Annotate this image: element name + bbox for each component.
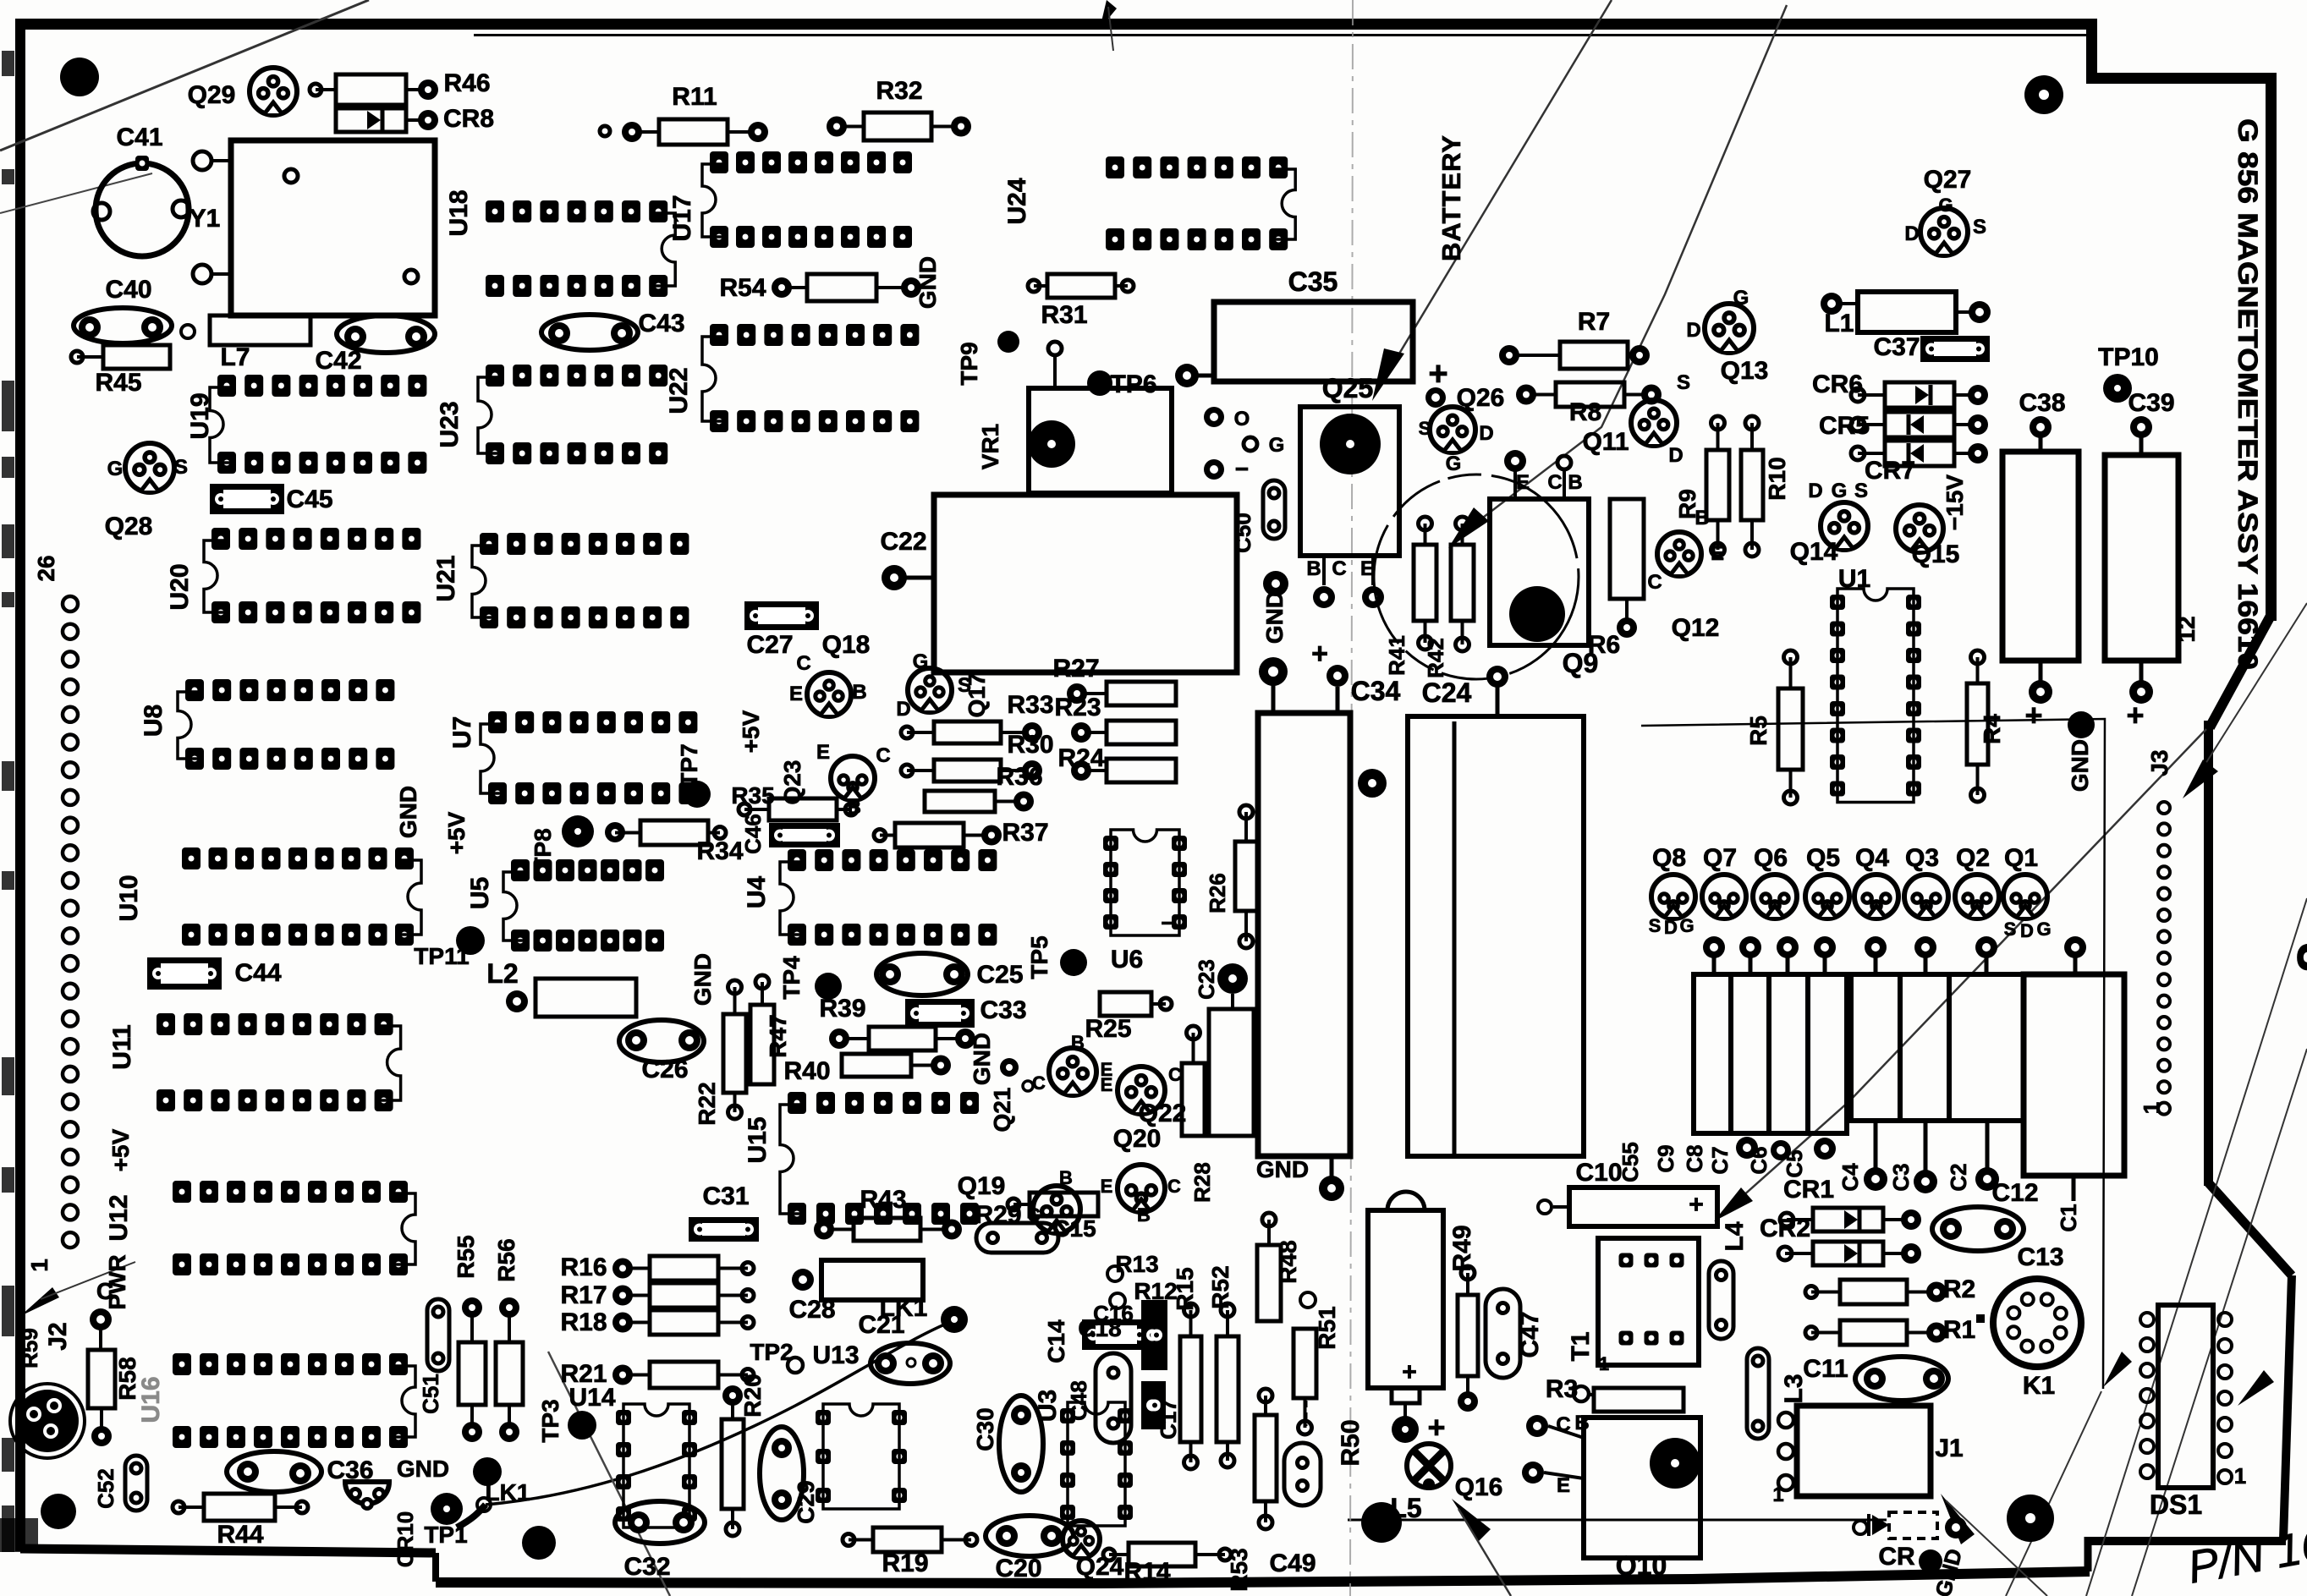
svg-text:CR8: CR8 (443, 105, 494, 133)
svg-text:J2: J2 (44, 1322, 72, 1350)
svg-text:CR10: CR10 (393, 1511, 418, 1567)
svg-text:R20: R20 (739, 1374, 766, 1417)
svg-text:U12: U12 (105, 1194, 133, 1241)
svg-text:U8: U8 (140, 705, 168, 737)
svg-text:C38: C38 (2019, 389, 2065, 417)
section boundary line (1641, 719, 2105, 1389)
pads O G minus (1204, 407, 1224, 427)
svg-text:U5: U5 (466, 877, 494, 909)
capacitor C39 (2105, 455, 2178, 661)
svg-text:K1: K1 (2023, 1372, 2055, 1400)
svg-text:LK1: LK1 (486, 1479, 530, 1506)
svg-text:TP10: TP10 (2098, 343, 2159, 371)
svg-text:G: G (1679, 915, 1694, 936)
capacitor C17 (1141, 1381, 1166, 1429)
bank bottom pads (1736, 1137, 1758, 1159)
resistor R26 (1235, 842, 1257, 911)
svg-text:D: D (2020, 920, 2034, 941)
resistor R58 (88, 1350, 115, 1408)
svg-text:R17: R17 (560, 1281, 607, 1309)
svg-text:U6: U6 (1111, 946, 1143, 974)
svg-text:3: 3 (2286, 943, 2307, 972)
svg-text:U16: U16 (137, 1376, 165, 1423)
svg-text:S: S (1973, 216, 1986, 239)
svg-text:Q8: Q8 (1652, 844, 1686, 872)
IC U23 (486, 365, 504, 387)
ground stub under C34 (1319, 1176, 1344, 1201)
svg-text:E: E (789, 683, 803, 705)
svg-text:L3: L3 (1780, 1374, 1808, 1403)
svg-text:C25: C25 (976, 961, 1023, 989)
resistor R48 (1257, 1245, 1281, 1321)
capacitor C35 (1214, 302, 1413, 381)
gate pads row (1703, 936, 1725, 958)
resistor R56 (496, 1342, 523, 1405)
paper crease line (1350, 0, 1353, 1596)
board edge inner line bottom-right (1348, 1519, 1887, 1522)
capacitor C30 (999, 1396, 1043, 1492)
resistor R5 (1778, 688, 1803, 770)
svg-text:R27: R27 (1052, 655, 1099, 683)
ground pad GND right (2068, 711, 2095, 738)
resistor R34 (640, 820, 708, 845)
svg-text:Q2: Q2 (1956, 844, 1990, 872)
svg-text:+5V: +5V (738, 710, 764, 753)
transistor Q19 (1033, 1186, 1080, 1233)
power transistor bottom-left (16, 1390, 79, 1452)
svg-text:G: G (1733, 287, 1749, 310)
resistor R39 (869, 1027, 936, 1050)
capacitor C40 (74, 308, 172, 343)
svg-text:S: S (1677, 371, 1690, 394)
test point TP9 (997, 331, 1019, 353)
svg-text:R58: R58 (114, 1357, 140, 1400)
svg-text:R19: R19 (882, 1549, 928, 1577)
svg-text:C17: C17 (1156, 1399, 1181, 1440)
svg-text:E: E (1101, 1176, 1113, 1197)
svg-text:G: G (1446, 452, 1462, 475)
svg-text:C33: C33 (980, 996, 1026, 1024)
svg-text:C7: C7 (1707, 1146, 1733, 1174)
capacitor C45 (210, 484, 284, 514)
diode CR7 (1885, 441, 1954, 466)
capacitor C22 (934, 495, 1237, 672)
transistor Q23 (831, 756, 875, 800)
capacitor C23 (1209, 1009, 1254, 1136)
IC U24 (1106, 156, 1124, 178)
svg-text:C46: C46 (740, 814, 766, 854)
svg-text:+: + (1402, 1358, 1417, 1386)
svg-text:L7: L7 (220, 343, 250, 371)
svg-text:U23: U23 (436, 401, 464, 447)
svg-text:12: 12 (2173, 616, 2200, 642)
capacitor C16 (1141, 1300, 1167, 1370)
svg-text:D: D (896, 698, 910, 721)
svg-text:U3: U3 (1034, 1390, 1062, 1422)
capacitor C26 (619, 1020, 704, 1062)
resistor R19 (873, 1527, 942, 1552)
IC U1 (1830, 595, 1845, 610)
test point TP5 (1060, 949, 1087, 976)
resistor R51 (1294, 1329, 1316, 1398)
resistor R32 (864, 112, 931, 140)
diode CR6 (1885, 382, 1954, 408)
svg-text:R36: R36 (996, 763, 1042, 791)
svg-text:U20: U20 (166, 563, 194, 610)
resistor R2 (1840, 1280, 1907, 1304)
resistor R1 (1840, 1320, 1907, 1345)
mounting hole bottom-right (2007, 1495, 2054, 1542)
svg-text:VR1: VR1 (977, 424, 1003, 469)
regulator VR1 (1029, 388, 1172, 493)
transformer T1 (1598, 1238, 1699, 1365)
svg-text:E: E (1101, 1074, 1113, 1095)
IC U16 (173, 1353, 191, 1375)
svg-text:TP6: TP6 (1110, 370, 1156, 398)
capacitor C24 (1408, 716, 1584, 1156)
capacitor C52 (125, 1456, 147, 1511)
transistor Q25 (1300, 407, 1399, 556)
transistor Q14 (1821, 502, 1868, 550)
resistor R22 (723, 1014, 746, 1093)
transistor Q24 (1063, 1521, 1100, 1558)
svg-text:G: G (1832, 480, 1848, 502)
svg-text:R4: R4 (1979, 714, 2005, 744)
transistor Q17 (908, 668, 952, 712)
IC U6 (1103, 836, 1118, 851)
capacitor C47 (1486, 1289, 1520, 1378)
capacitor C18 (1082, 1319, 1151, 1350)
svg-text:C41: C41 (116, 123, 162, 151)
svg-text:R5: R5 (1745, 716, 1771, 746)
svg-text:J3: J3 (2146, 749, 2172, 776)
dashed circle C24 outline (1374, 474, 1579, 679)
svg-text:C: C (1167, 1176, 1181, 1197)
svg-text:TP11: TP11 (414, 943, 469, 969)
resistor R33 (934, 721, 1001, 743)
test point TP11 (456, 926, 485, 955)
svg-text:U15: U15 (744, 1116, 772, 1163)
capacitor C20 (986, 1516, 1074, 1556)
svg-text:C32: C32 (623, 1553, 670, 1581)
resistor R31 (1047, 274, 1115, 298)
svg-text:C2: C2 (1946, 1163, 1971, 1191)
IC U18 (486, 200, 504, 222)
svg-text:R53: R53 (1226, 1548, 1252, 1591)
capacitor C9 (1731, 974, 1769, 1133)
svg-text:1: 1 (1772, 1484, 1783, 1506)
svg-text:C9: C9 (1653, 1144, 1678, 1172)
capacitor C36 (227, 1451, 321, 1492)
svg-text:CR6: CR6 (1812, 370, 1863, 398)
resistor R25 (1100, 992, 1151, 1016)
svg-text:B: B (1071, 1032, 1085, 1053)
svg-text:C12: C12 (1991, 1179, 2038, 1207)
svg-text:L4: L4 (1721, 1221, 1749, 1251)
svg-text:C10: C10 (1575, 1159, 1622, 1187)
svg-text:Q28: Q28 (105, 513, 153, 540)
svg-text:R22: R22 (694, 1082, 720, 1125)
svg-text:B: B (852, 681, 866, 704)
transistor Q5 (1805, 875, 1849, 919)
resistor R6 (1610, 499, 1644, 599)
pointer arrow at J1 (1941, 1494, 1975, 1544)
link wire LK1 (486, 1321, 953, 1505)
test point TP10 (2103, 374, 2132, 403)
svg-text:R52: R52 (1207, 1265, 1233, 1308)
scratch line bottom-right long (2132, 1049, 2307, 1596)
svg-text:R45: R45 (95, 369, 141, 397)
svg-text:C24: C24 (1422, 677, 1472, 708)
svg-text:TP7: TP7 (676, 743, 702, 787)
svg-text:R10: R10 (1764, 457, 1790, 500)
svg-text:D: D (1479, 422, 1493, 445)
svg-text:Q13: Q13 (1721, 357, 1769, 385)
inductor L1 (1858, 292, 1956, 332)
capacitor C29 (760, 1427, 804, 1520)
capacitor C6 (1851, 974, 1900, 1121)
connector J1 (1797, 1406, 1931, 1496)
resistor R40 (842, 1054, 911, 1077)
capacitor C12 (1932, 1207, 2024, 1251)
svg-text:R55: R55 (453, 1235, 479, 1278)
transistor Q18 (807, 672, 851, 716)
svg-text:U22: U22 (665, 367, 693, 414)
svg-text:Q10: Q10 (1616, 1550, 1667, 1581)
svg-text:C51: C51 (418, 1374, 443, 1414)
IC U22 (710, 324, 728, 346)
svg-text:C22: C22 (880, 528, 926, 556)
capacitor C4 (1949, 974, 2024, 1121)
svg-text:GND: GND (1261, 591, 1288, 644)
IC U7 (488, 711, 507, 733)
svg-text:GND: GND (915, 256, 941, 309)
capacitor C43 (541, 315, 638, 350)
transistor Q13 (1705, 304, 1754, 353)
transistor Q3 (1904, 875, 1948, 919)
resistor R21 (650, 1362, 718, 1388)
resistor R23 (1107, 721, 1176, 744)
svg-text:C13: C13 (2017, 1243, 2063, 1271)
svg-text:R39: R39 (819, 995, 865, 1023)
diode CR5 (1885, 412, 1954, 437)
IC U4 (788, 849, 806, 871)
svg-text:Q14: Q14 (1790, 538, 1838, 566)
IC U21 (480, 533, 498, 555)
capacitor C25 (876, 953, 968, 995)
svg-text:GND: GND (395, 786, 421, 838)
board outline left border (15, 19, 25, 1551)
svg-text:C44: C44 (234, 959, 281, 987)
svg-text:Q1: Q1 (2004, 844, 2038, 872)
test point TP1 (431, 1493, 463, 1525)
diode CR8 (336, 108, 406, 132)
transistor Q10 (1584, 1418, 1700, 1558)
svg-text:R6: R6 (1588, 631, 1620, 659)
capacitor C5 (1900, 974, 1949, 1121)
svg-text:S: S (1419, 418, 1431, 439)
svg-text:1: 1 (2139, 1102, 2164, 1114)
svg-text:U13: U13 (812, 1341, 859, 1369)
capacitor C42 (337, 315, 435, 353)
svg-text:Q24: Q24 (1076, 1553, 1124, 1581)
svg-text:L2: L2 (486, 958, 518, 989)
transistor Q6 (1753, 875, 1797, 919)
svg-text:C48: C48 (1066, 1380, 1091, 1421)
svg-text:R7: R7 (1578, 308, 1610, 336)
svg-text:C49: C49 (1269, 1549, 1316, 1577)
svg-text:Q6: Q6 (1754, 844, 1788, 872)
capacitor C44 (147, 957, 222, 990)
pointer arrow at J2 (20, 1287, 59, 1316)
resistor R53 (1255, 1415, 1277, 1501)
svg-text:R16: R16 (560, 1253, 607, 1281)
pointer line to C10 (1726, 729, 2206, 1211)
resistor R54 (807, 274, 876, 301)
battery pointer line (1379, 0, 1612, 387)
svg-text:R37: R37 (1002, 819, 1048, 847)
mounting hole top-left (60, 58, 99, 96)
resistor R29 (1030, 1193, 1098, 1216)
resistor R45 (103, 345, 170, 369)
pointer line to Q9 (1458, 5, 1787, 536)
resistor R49 (1458, 1295, 1478, 1376)
scratch line bottom-right second (2086, 898, 2307, 1596)
svg-text:Q16: Q16 (1455, 1473, 1503, 1501)
svg-text:C: C (1332, 557, 1346, 580)
svg-text:R24: R24 (1057, 744, 1104, 772)
svg-text:+: + (1689, 1191, 1704, 1219)
inductor L2 (536, 979, 636, 1017)
svg-text:U4: U4 (743, 876, 771, 909)
svg-text:CR: CR (1878, 1543, 1915, 1571)
svg-text:C15: C15 (1052, 1215, 1096, 1242)
svg-text:R56: R56 (493, 1238, 519, 1281)
svg-text:U21: U21 (432, 555, 460, 601)
svg-text:CR7: CR7 (1865, 457, 1915, 485)
svg-text:R51: R51 (1314, 1306, 1340, 1349)
svg-text:Q29: Q29 (188, 81, 236, 109)
transistor Q12 (1657, 532, 1701, 576)
transistor Q27 (1920, 208, 1968, 255)
transistor Q11 (1631, 400, 1677, 446)
capacitor C31 (689, 1217, 759, 1242)
resistor R18 (650, 1310, 718, 1335)
resistor R17 (650, 1283, 718, 1308)
resistor R30 (934, 760, 1001, 782)
svg-text:C4: C4 (1837, 1163, 1863, 1192)
capacitor C55 (1694, 974, 1731, 1133)
svg-text:Q25: Q25 (1322, 373, 1373, 403)
svg-text:R46: R46 (443, 69, 490, 97)
resistor R36 (925, 791, 995, 812)
resistor R8 (1556, 382, 1624, 407)
svg-text:C: C (1547, 471, 1562, 494)
svg-text:PWR: PWR (104, 1254, 130, 1309)
capacitor C1 (2024, 974, 2124, 1176)
svg-text:R26: R26 (1205, 873, 1230, 913)
IC U5 (511, 859, 530, 881)
IC U17 (710, 151, 728, 173)
svg-text:C42: C42 (315, 347, 361, 375)
svg-text:R44: R44 (217, 1521, 263, 1549)
capacitor C28 (821, 1260, 923, 1300)
resistor R37 (895, 823, 964, 847)
resistor R9 (1706, 450, 1729, 520)
mounting hole top-right (2024, 75, 2063, 114)
capacitor C38 (2002, 452, 2079, 661)
IC U15 (788, 1092, 806, 1114)
svg-text:D: D (1668, 444, 1683, 467)
svg-text:S: S (958, 674, 971, 697)
IC U11 (157, 1013, 175, 1035)
transistor Q1 (2003, 875, 2047, 919)
svg-text:R40: R40 (783, 1057, 830, 1085)
transistor Q9 (1490, 499, 1589, 645)
transistor Q7 (1702, 875, 1746, 919)
resistor R55 (459, 1342, 486, 1405)
resistor R46 (336, 74, 406, 105)
svg-text:B: B (1059, 1167, 1073, 1188)
svg-text:GND: GND (689, 953, 716, 1006)
resistor R10 (1741, 450, 1763, 520)
svg-text:C: C (876, 744, 890, 767)
svg-text:C43: C43 (638, 310, 684, 337)
svg-text:D: D (1808, 480, 1822, 502)
svg-text:Q27: Q27 (1924, 166, 1972, 194)
capacitor C27 (744, 601, 819, 630)
svg-text:G 856 MAGNETOMETER ASSY 16610: G 856 MAGNETOMETER ASSY 16610 (2233, 118, 2263, 670)
svg-text:Q11: Q11 (1582, 428, 1629, 456)
inductor L4 (1709, 1261, 1733, 1339)
svg-text:C39: C39 (2128, 389, 2174, 417)
svg-text:R11: R11 (672, 83, 717, 111)
svg-text:+: + (1428, 355, 1447, 392)
svg-text:LK1: LK1 (880, 1294, 928, 1322)
resistor R27 (1107, 682, 1176, 705)
scratch diagonal bottom-center (548, 1352, 670, 1596)
transistor Q20 (1118, 1165, 1165, 1212)
resistor R4 (1967, 683, 1988, 765)
transistor Q4 (1854, 875, 1898, 919)
IC U3 (1060, 1408, 1075, 1423)
svg-text:DS1: DS1 (2150, 1489, 2202, 1520)
diode CR1 (1813, 1208, 1883, 1231)
svg-text:U7: U7 (448, 716, 476, 749)
ground pad near GND label (1000, 1058, 1019, 1077)
svg-text:C47: C47 (1516, 1311, 1544, 1357)
svg-text:C50: C50 (1230, 513, 1255, 553)
transistor Q26 (1430, 407, 1475, 452)
svg-text:Q12: Q12 (1672, 614, 1720, 642)
svg-text:R9: R9 (1674, 489, 1700, 519)
svg-text:U14: U14 (569, 1384, 615, 1412)
svg-text:TP1: TP1 (424, 1522, 467, 1548)
svg-text:U17: U17 (668, 195, 696, 241)
transistor Q28 (125, 443, 174, 492)
svg-text:G: G (913, 650, 929, 673)
svg-text:C35: C35 (1288, 266, 1338, 297)
display DS1 (2158, 1305, 2213, 1488)
svg-text:R2: R2 (1943, 1275, 1975, 1303)
transistor Q16 (1407, 1444, 1451, 1488)
svg-text:T1: T1 (1567, 1331, 1595, 1361)
svg-text:+: + (2126, 698, 2144, 732)
svg-text:C11: C11 (1803, 1355, 1848, 1383)
svg-text:+: + (1427, 1410, 1445, 1445)
inductor L7 (210, 315, 310, 345)
svg-text:R59: R59 (17, 1328, 42, 1368)
